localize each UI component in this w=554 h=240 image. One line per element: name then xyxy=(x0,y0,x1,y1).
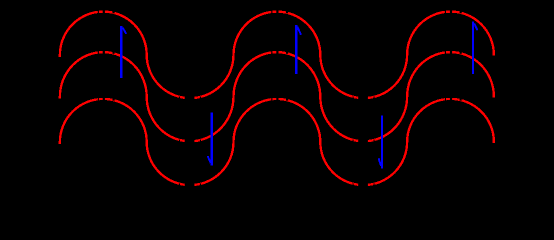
wave curve 3 xyxy=(60,99,494,185)
blue up arrow 3 xyxy=(473,21,477,74)
wave curve 1 xyxy=(60,12,494,99)
blue down arrow 1 xyxy=(208,112,212,165)
wave curve 2 xyxy=(60,52,494,141)
blue up arrow 2 xyxy=(296,25,301,74)
dash gaps on wave curve 3 xyxy=(98,97,462,187)
blue down arrow 2 xyxy=(379,115,382,168)
dash gaps on wave curve 1 xyxy=(98,10,462,100)
blue up arrow 1 xyxy=(121,26,126,78)
dash gaps on wave curve 2 xyxy=(98,50,462,143)
